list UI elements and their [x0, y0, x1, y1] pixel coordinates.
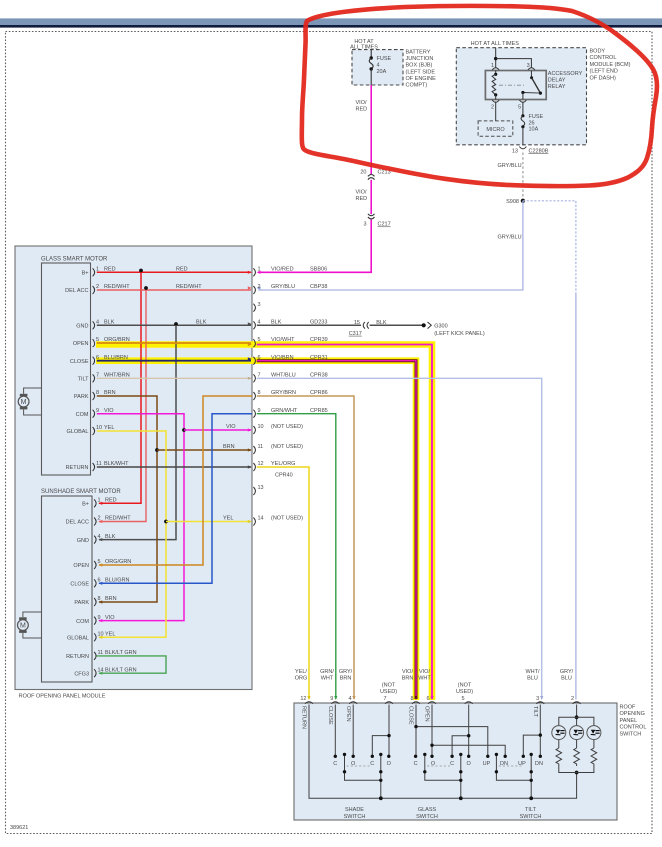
svg-text:YEL: YEL — [105, 632, 115, 638]
svg-text:COMPT): COMPT) — [406, 83, 428, 89]
svg-text:JUNCTION: JUNCTION — [406, 56, 434, 62]
wire RED vertical to sunshade B+ — [99, 272, 141, 503]
svg-text:2: 2 — [258, 284, 261, 290]
connector C2280B pin 13 — [519, 147, 526, 149]
junction yel / branch to pin 14 — [164, 520, 168, 524]
switch internal wiring — [309, 705, 577, 799]
svg-text:COM: COM — [76, 619, 89, 625]
svg-text:(LEFT SIDE: (LEFT SIDE — [406, 69, 436, 75]
svg-text:11: 11 — [258, 444, 264, 450]
wire GRY/BLU (S908 right branch down to switch) — [523, 201, 576, 294]
svg-text:RETURN: RETURN — [66, 654, 89, 660]
svg-text:CLOSE: CLOSE — [70, 359, 89, 365]
svg-text:RED/WHT: RED/WHT — [104, 284, 130, 290]
svg-text:CPR40: CPR40 — [275, 473, 293, 479]
svg-text:GRY/BLU: GRY/BLU — [498, 235, 522, 241]
svg-text:GRY/: GRY/ — [339, 669, 353, 675]
wire BLK vertical to sunshade GND — [99, 325, 176, 539]
wire RED/WHT (glass DEL ACC row) — [97, 289, 251, 291]
ground G300 — [422, 323, 426, 327]
svg-text:GRY/BLU: GRY/BLU — [271, 284, 295, 290]
junction red — [139, 269, 143, 273]
svg-text:C2280B: C2280B — [529, 148, 549, 154]
svg-text:4: 4 — [348, 696, 351, 702]
svg-text:(NOT USED): (NOT USED) — [271, 516, 303, 522]
svg-text:26: 26 — [529, 120, 535, 126]
wire VIO/RED (C217 down to module pin 1) — [258, 220, 371, 273]
wire BLK/WHT (glass RETURN to module pin 12) — [97, 466, 251, 468]
svg-text:4: 4 — [377, 63, 380, 69]
svg-text:VIO/: VIO/ — [356, 100, 367, 106]
svg-text:389621: 389621 — [10, 825, 28, 831]
svg-text:5: 5 — [258, 337, 261, 343]
glass pin5 feed with branch — [468, 705, 470, 757]
wire GRY/BRN (module pin 8 to switch pin 4) — [257, 396, 354, 699]
svg-text:YEL/: YEL/ — [295, 669, 307, 675]
svg-text:BLK: BLK — [196, 320, 207, 326]
BCM feed wire — [495, 48, 497, 68]
svg-text:5: 5 — [518, 104, 521, 110]
svg-text:VIO/: VIO/ — [356, 190, 367, 196]
svg-text:CPR39: CPR39 — [310, 337, 328, 343]
contact labels — [333, 761, 543, 767]
glass motor pin brackets — [93, 268, 95, 471]
svg-text:CONTROL: CONTROL — [620, 725, 647, 731]
svg-text:WHT: WHT — [418, 676, 431, 682]
wire VIO/RED (fuse to C213) — [370, 85, 372, 175]
body control module (BCM) — [456, 48, 586, 145]
module connector wire labels — [271, 267, 328, 522]
relay switch — [530, 71, 532, 78]
junction blk — [174, 322, 178, 326]
svg-text:GRN/: GRN/ — [320, 669, 334, 675]
svg-text:SWITCH: SWITCH — [416, 814, 438, 820]
svg-text:13: 13 — [512, 148, 518, 154]
svg-text:B+: B+ — [82, 502, 89, 508]
shade close feed — [334, 705, 336, 757]
battery junction box (BJB) — [352, 50, 403, 85]
svg-text:VIO/: VIO/ — [419, 669, 430, 675]
svg-text:OF DASH): OF DASH) — [590, 75, 616, 81]
wire labels above switch — [295, 669, 574, 695]
svg-text:BRN: BRN — [104, 390, 116, 396]
resistor 3 — [591, 748, 597, 766]
gry/blu feed to led rail — [576, 705, 578, 726]
svg-text:GRY/BLU: GRY/BLU — [498, 163, 522, 169]
svg-text:UP: UP — [518, 761, 526, 767]
svg-text:7: 7 — [383, 696, 386, 702]
wire VIO/WHT (module pin 5 to switch pin 6) — [257, 345, 432, 700]
wire ORG/BRN (glass OPEN row, highlighted) — [97, 342, 251, 344]
fuse 4 20A — [370, 50, 372, 58]
sunshade pin numbers — [98, 498, 104, 674]
svg-text:YEL: YEL — [223, 516, 233, 522]
wire GRY/BLU (C2280B to S908) — [522, 153, 524, 199]
switch pin brackets — [305, 702, 581, 704]
switch pin numbers — [300, 696, 574, 702]
svg-text:ROOF: ROOF — [620, 705, 637, 711]
shade pin7 feed with branch — [388, 705, 390, 757]
svg-text:ROOF OPENING PANEL MODULE: ROOF OPENING PANEL MODULE — [19, 694, 106, 700]
svg-text:10A: 10A — [529, 127, 539, 133]
svg-text:PARK: PARK — [74, 600, 89, 606]
svg-text:8: 8 — [410, 696, 413, 702]
svg-text:DN: DN — [535, 761, 543, 767]
svg-text:OPEN: OPEN — [424, 706, 430, 722]
svg-text:UP: UP — [483, 761, 491, 767]
svg-text:C: C — [450, 761, 454, 767]
svg-text:BLU: BLU — [527, 676, 538, 682]
wire BLU/BRN (glass CLOSE row, highlighted) — [97, 360, 251, 362]
svg-text:3: 3 — [363, 222, 366, 228]
svg-text:GLOBAL: GLOBAL — [66, 429, 88, 435]
svg-text:RED: RED — [176, 267, 188, 273]
svg-text:ALL TIMES: ALL TIMES — [350, 45, 378, 51]
svg-text:RED: RED — [104, 267, 116, 273]
wire BLK (C317 to G300) — [370, 324, 422, 326]
contact terminal dots — [334, 715, 579, 800]
highlighter mark over OPEN circuit — [96, 345, 432, 701]
module connector brackets (right edge) — [253, 268, 255, 525]
splice S908 — [521, 199, 525, 203]
svg-text:RED: RED — [356, 107, 368, 113]
LED to resistor links — [559, 740, 594, 748]
sunshade pin brackets — [94, 499, 96, 677]
svg-text:ORG: ORG — [295, 676, 308, 682]
svg-text:C: C — [370, 761, 374, 767]
wire VIO/RED (C213 to C217) — [370, 180, 372, 214]
svg-text:GND: GND — [76, 324, 88, 330]
svg-text:ORG/GRN: ORG/GRN — [105, 559, 131, 565]
svg-text:SWITCH: SWITCH — [520, 814, 542, 820]
svg-text:14: 14 — [258, 516, 264, 522]
svg-text:YEL: YEL — [104, 425, 114, 431]
return feed to common bus — [309, 705, 577, 799]
resistor 1 — [556, 748, 562, 766]
wire relay pin5 to fuse 26 — [522, 102, 524, 116]
svg-text:PARK: PARK — [74, 394, 89, 400]
svg-text:OF ENGINE: OF ENGINE — [406, 76, 437, 82]
svg-text:BOX (BJB): BOX (BJB) — [406, 63, 433, 69]
svg-text:M: M — [20, 623, 26, 630]
svg-text:GND: GND — [77, 538, 89, 544]
relay armature link — [499, 84, 526, 86]
svg-text:1: 1 — [491, 63, 494, 69]
svg-text:CLOSE: CLOSE — [327, 706, 333, 725]
svg-text:3: 3 — [527, 63, 530, 69]
svg-text:OPEN: OPEN — [73, 341, 89, 347]
svg-text:BRN: BRN — [402, 676, 414, 682]
wire BLK (module pin 4 to G300) — [257, 324, 361, 326]
relay coil — [495, 71, 497, 75]
svg-text:SBB06: SBB06 — [310, 267, 327, 273]
svg-text:BODY: BODY — [590, 49, 606, 55]
svg-text:OPENING: OPENING — [620, 711, 645, 717]
svg-text:3: 3 — [536, 696, 539, 702]
svg-text:COM: COM — [76, 412, 89, 418]
svg-text:S908: S908 — [506, 199, 519, 205]
svg-text:(NOT: (NOT — [458, 683, 472, 689]
svg-text:MICRO: MICRO — [486, 127, 505, 133]
svg-text:RETURN: RETURN — [301, 706, 307, 729]
svg-text:BRN: BRN — [223, 444, 235, 450]
wire WHT/BLU (module pin 7 to switch pin 3) — [257, 378, 542, 699]
svg-text:20A: 20A — [377, 69, 387, 75]
svg-text:GLOBAL: GLOBAL — [67, 636, 89, 642]
svg-text:VIO/: VIO/ — [402, 669, 413, 675]
svg-text:BLU/GRN: BLU/GRN — [105, 578, 129, 584]
LED 2 — [570, 726, 584, 740]
highlighter mark over CLOSE circuit — [96, 361, 416, 700]
svg-text:6: 6 — [426, 696, 429, 702]
resistor 2 — [574, 748, 580, 766]
glass motor symbol M — [24, 388, 42, 394]
svg-text:1: 1 — [258, 267, 261, 273]
svg-text:VIO: VIO — [226, 424, 236, 430]
svg-text:11: 11 — [98, 650, 104, 656]
wire YEL (glass GLOBAL to sunshade GLOBAL) — [97, 431, 166, 637]
wire BRN (glass PARK to sunshade PARK) — [97, 396, 157, 602]
svg-text:O: O — [351, 761, 356, 767]
svg-text:WHT/BRN: WHT/BRN — [104, 373, 130, 379]
svg-text:BLK/LT GRN: BLK/LT GRN — [105, 667, 137, 673]
wire ORG/GRN (module pin 8 to sunshade OPEN) — [99, 396, 252, 565]
wire relay pin2 to micro — [495, 102, 497, 121]
svg-text:GLASS SMART MOTOR: GLASS SMART MOTOR — [41, 257, 108, 263]
svg-text:RED: RED — [105, 498, 117, 504]
svg-text:C217: C217 — [378, 222, 391, 228]
svg-text:RED: RED — [356, 196, 368, 202]
svg-text:GLASS: GLASS — [418, 807, 437, 813]
svg-text:BLK/LT GRN: BLK/LT GRN — [105, 650, 137, 656]
svg-text:USED): USED) — [380, 689, 397, 695]
wire BLU/GRN (module pin 9 to sunshade CLOSE) — [99, 414, 252, 584]
svg-text:DELAY: DELAY — [548, 78, 566, 84]
svg-text:3: 3 — [258, 302, 261, 308]
title bar — [0, 18, 662, 25]
svg-text:CBP38: CBP38 — [310, 284, 327, 290]
svg-text:(NOT USED): (NOT USED) — [271, 424, 303, 430]
svg-text:BLK: BLK — [104, 320, 115, 326]
wire BLK/LT GRN loop (sunshade RETURN to CFG3) — [97, 656, 166, 673]
svg-text:PANEL: PANEL — [620, 718, 638, 724]
svg-text:(NOT USED): (NOT USED) — [271, 444, 303, 450]
svg-text:C: C — [333, 761, 337, 767]
svg-text:FUSE: FUSE — [377, 56, 392, 62]
svg-text:VIO/RED: VIO/RED — [271, 267, 294, 273]
wire VIO/BRN (module pin 6 to switch pin 8) — [257, 361, 416, 699]
svg-text:BLK/WHT: BLK/WHT — [104, 461, 129, 467]
svg-text:20: 20 — [360, 170, 366, 176]
wire RED/WHT vertical to sunshade DEL ACC — [99, 290, 146, 522]
svg-text:SWITCH: SWITCH — [620, 731, 642, 737]
wire GRY/BLU (S908 to module pin 2) — [258, 201, 523, 290]
svg-text:BRN: BRN — [340, 676, 352, 682]
LED 1 — [552, 726, 566, 740]
svg-text:SHADE: SHADE — [345, 807, 364, 813]
svg-text:WHT/: WHT/ — [525, 669, 540, 675]
fuse 26 10A — [521, 114, 524, 117]
svg-text:CFG3: CFG3 — [74, 671, 89, 677]
tilt switch poles — [495, 754, 497, 771]
svg-text:O: O — [387, 761, 392, 767]
resistor bottom rail — [559, 766, 594, 773]
svg-text:O: O — [431, 761, 436, 767]
svg-text:2: 2 — [491, 104, 494, 110]
connector C217 — [368, 214, 375, 216]
roof opening panel control switch box — [294, 703, 617, 820]
svg-text:VIO/WHT: VIO/WHT — [271, 337, 295, 343]
svg-text:VIO: VIO — [105, 615, 115, 621]
svg-text:5: 5 — [461, 696, 464, 702]
svg-text:WHT: WHT — [321, 676, 334, 682]
tilt pin3 feed with branch — [539, 705, 541, 757]
wire GRN/WHT (module pin 9 to switch pin 9) — [257, 414, 336, 699]
sunshade motor symbol M — [23, 612, 42, 617]
svg-text:TILT: TILT — [532, 706, 538, 718]
svg-text:C317: C317 — [349, 331, 362, 337]
svg-text:ORG/BRN: ORG/BRN — [104, 337, 130, 343]
svg-text:OPEN: OPEN — [73, 563, 89, 569]
svg-text:RED/WHT: RED/WHT — [105, 516, 131, 522]
svg-text:HOT AT ALL TIMES: HOT AT ALL TIMES — [471, 41, 520, 47]
svg-text:C: C — [414, 761, 418, 767]
svg-text:CONTROL: CONTROL — [590, 55, 617, 61]
svg-text:BLK: BLK — [105, 534, 116, 540]
LED 3 — [587, 726, 601, 740]
module connector pin numbers — [258, 267, 264, 522]
svg-text:CLOSE: CLOSE — [70, 582, 89, 588]
svg-text:MODULE (BCM): MODULE (BCM) — [590, 62, 631, 68]
mechanical link dashes — [347, 765, 522, 767]
svg-text:USED): USED) — [456, 689, 473, 695]
shade switch poles — [344, 754, 346, 771]
svg-text:RETURN: RETURN — [66, 465, 89, 471]
hand-drawn red marker circle — [302, 6, 657, 186]
svg-text:9: 9 — [330, 696, 333, 702]
glass motor pin numbers — [96, 267, 102, 468]
svg-text:DN: DN — [500, 761, 508, 767]
svg-text:12: 12 — [300, 696, 306, 702]
wire YEL/ORG (module pin 12 to switch pin 12) — [257, 467, 309, 699]
svg-text:(LEFT END: (LEFT END — [590, 69, 618, 75]
svg-text:13: 13 — [258, 485, 264, 491]
micro — [478, 121, 513, 136]
svg-text:GRY/: GRY/ — [560, 669, 574, 675]
glass switch poles — [424, 754, 426, 771]
svg-text:BRN: BRN — [105, 596, 117, 602]
shade open feed — [352, 705, 354, 757]
svg-text:BLU/BRN: BLU/BRN — [104, 355, 128, 361]
glass close feed with branch to tilt up — [415, 705, 417, 757]
svg-text:(NOT: (NOT — [382, 683, 396, 689]
svg-text:BLU: BLU — [561, 676, 572, 682]
svg-text:15: 15 — [354, 320, 360, 326]
wire BLK (glass GND row) — [97, 324, 251, 326]
svg-text:B+: B+ — [82, 271, 89, 277]
svg-text:RELAY: RELAY — [548, 84, 566, 90]
svg-text:G300: G300 — [434, 323, 447, 329]
svg-text:FUSE: FUSE — [529, 114, 544, 120]
svg-text:M: M — [21, 399, 27, 406]
svg-text:DEL ACC: DEL ACC — [65, 288, 88, 294]
accessory delay relay — [485, 71, 546, 100]
glass open feed with branch to tilt dn — [431, 705, 433, 757]
svg-text:2: 2 — [571, 696, 574, 702]
svg-text:(LEFT KICK PANEL): (LEFT KICK PANEL) — [434, 331, 485, 337]
svg-text:BLK: BLK — [376, 320, 387, 326]
svg-text:DEL ACC: DEL ACC — [66, 520, 89, 526]
svg-text:VIO: VIO — [104, 408, 114, 414]
wire WHT/BRN (glass TILT row) — [97, 377, 251, 379]
svg-text:RED/WHT: RED/WHT — [176, 284, 202, 290]
junction vio / branch to pin 10 — [182, 428, 186, 432]
svg-text:ACCESSORY: ACCESSORY — [548, 71, 583, 77]
roof opening panel module box — [15, 246, 252, 690]
svg-text:O: O — [467, 761, 472, 767]
svg-text:10: 10 — [258, 424, 264, 430]
svg-text:SUNSHADE SMART MOTOR: SUNSHADE SMART MOTOR — [41, 489, 121, 495]
junction red/wht — [144, 286, 148, 290]
wire VIO (glass COM to sunshade COM) — [97, 414, 184, 621]
junction brn / branch to pin 11 — [155, 448, 159, 452]
wire RED (glass B+ row) — [97, 271, 251, 273]
svg-text:SWITCH: SWITCH — [344, 814, 366, 820]
svg-text:BATTERY: BATTERY — [406, 49, 431, 55]
svg-text:TILT: TILT — [78, 377, 90, 383]
svg-text:TILT: TILT — [525, 807, 537, 813]
svg-text:CLOSE: CLOSE — [408, 706, 414, 725]
svg-text:OPEN: OPEN — [345, 706, 351, 722]
LED rail — [559, 717, 594, 725]
